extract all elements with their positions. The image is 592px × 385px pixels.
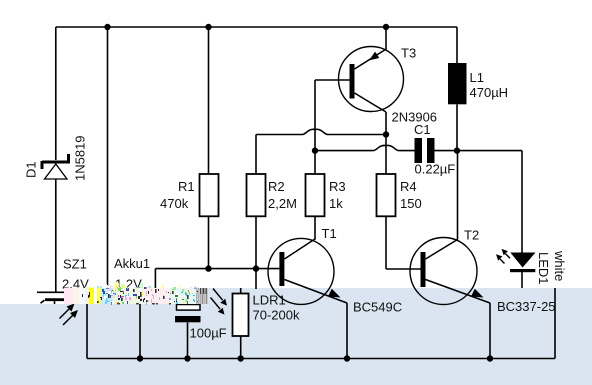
junction top rail x108	[104, 24, 110, 30]
svg-text:R3: R3	[329, 179, 346, 194]
wire 100uF top stub	[187, 290, 189, 305]
svg-text:LED1: LED1	[536, 252, 551, 285]
svg-text:R2: R2	[268, 179, 285, 194]
svg-text:R4: R4	[400, 179, 417, 194]
svg-text:T2: T2	[464, 228, 479, 243]
wire T3 base vertical	[314, 80, 316, 151]
resistor R2	[247, 174, 266, 216]
svg-text:T1: T1	[322, 226, 337, 241]
resistor R3	[306, 174, 325, 216]
transistor T3 2N3906 PNP	[315, 27, 404, 135]
svg-text:white: white	[552, 250, 567, 281]
junction ground LDR	[238, 355, 244, 361]
LED light arrow 1	[496, 254, 505, 263]
wire SZ1 bottom to ground rail	[86, 304, 88, 359]
blue background band right part	[64, 288, 592, 305]
wire LED cathode down	[521, 272, 523, 288]
svg-text:1k: 1k	[329, 196, 343, 211]
svg-text:SZ1: SZ1	[63, 257, 87, 272]
svg-text:BC337-25: BC337-25	[497, 299, 556, 314]
wire L1 bottom to node	[456, 104, 458, 150]
wire akku bottom to ground rail	[139, 301, 141, 359]
svg-text:470k: 470k	[160, 196, 189, 211]
transistor T1 BC549C NPN	[268, 238, 347, 358]
inductor L1	[448, 63, 467, 104]
junction T3 collector R4	[383, 131, 389, 137]
svg-text:Akku1: Akku1	[114, 256, 150, 271]
wire LDR bottom	[240, 336, 242, 359]
SZ1 light arrow 2	[63, 310, 78, 325]
wire R2 junction down stub	[255, 269, 257, 289]
svg-text:100µF: 100µF	[190, 326, 227, 341]
svg-text:BC549C: BC549C	[353, 300, 402, 315]
svg-text:LDR1: LDR1	[253, 293, 286, 308]
LDR light arrow 1	[213, 289, 227, 306]
wire hidden horizontal in noise	[108, 289, 188, 291]
SZ1 light arrow 1	[60, 304, 75, 319]
svg-text:D1: D1	[24, 161, 39, 178]
junction top rail R1	[205, 24, 211, 30]
wire top rail	[56, 26, 457, 28]
blue background band lower area	[0, 304, 592, 385]
wire T2 collector vertical	[457, 151, 459, 240]
noise corruption strip	[64, 283, 208, 305]
wire rail corner down to L1	[456, 27, 458, 63]
wire LDR top stub	[240, 288, 242, 294]
svg-text:470µH: 470µH	[470, 85, 509, 100]
wire T2 base lead	[386, 268, 421, 270]
wire LED branch down to ground	[554, 288, 556, 359]
LED light arrow 2	[502, 249, 511, 258]
svg-text:L1: L1	[470, 70, 484, 85]
svg-text:R1: R1	[178, 179, 195, 194]
wire C1 right to node	[435, 150, 458, 152]
wire R3 bottom to T1 collector	[314, 216, 316, 238]
junction ground akku	[137, 355, 143, 361]
diode D1 1N5819 schottky	[42, 154, 70, 179]
LDR1 body	[233, 294, 249, 337]
wire rail down to D1 cathode	[55, 27, 57, 160]
wire base rail horizontal	[155, 268, 279, 270]
wire node to C1 with hop over x386	[315, 145, 415, 150]
junction top rail T3	[383, 24, 389, 30]
junction base rail R2 LDR	[253, 265, 259, 271]
junction base rail R1	[205, 265, 211, 271]
transistor T2 BC337-25 NPN	[410, 238, 490, 359]
wire R4 bottom	[385, 216, 387, 269]
junction ground T1 emitter	[344, 355, 350, 361]
wire R1 bottom	[208, 216, 210, 268]
svg-text:2,2M: 2,2M	[268, 196, 297, 211]
wire R3 top	[314, 151, 316, 174]
junction C1 L1 node	[454, 147, 460, 153]
junction T3 base R3	[312, 147, 318, 153]
wire D1 anode to SZ1	[55, 179, 57, 292]
wire R4 top	[385, 135, 387, 175]
solar cell SZ1 plates	[37, 292, 75, 304]
LDR light arrow 2	[211, 298, 225, 315]
wire 100uF bottom	[187, 323, 189, 359]
wire R2-to-T3collector with hop over x315	[256, 129, 386, 134]
resistor R4	[377, 174, 396, 216]
wire bottom ground rail	[87, 358, 555, 360]
capacitor C1	[415, 138, 435, 163]
wire LED anode vertical	[521, 151, 523, 253]
svg-text:2N3906: 2N3906	[392, 110, 438, 125]
wire R2 bottom	[255, 216, 257, 268]
svg-text:0.22µF: 0.22µF	[415, 162, 456, 177]
wire base rail corner down (x155)	[154, 269, 156, 290]
svg-text:150: 150	[400, 196, 422, 211]
battery Akku1 plates (hidden in noise)	[122, 292, 158, 299]
svg-text:70-200k: 70-200k	[253, 308, 300, 323]
junction ground T2 emitter	[487, 355, 493, 361]
svg-text:T3: T3	[401, 46, 416, 61]
wire rail junction down to battery (x108)	[107, 27, 109, 290]
junction ground 100uF	[184, 355, 190, 361]
wire node to LED branch	[457, 150, 522, 152]
capacitor 100uF electrolytic	[175, 305, 201, 323]
wire R2 top	[255, 135, 257, 175]
svg-text:1N5819: 1N5819	[73, 135, 88, 181]
resistor R1	[200, 174, 219, 216]
wire R1 top	[208, 27, 210, 174]
LED1 white	[510, 253, 536, 273]
